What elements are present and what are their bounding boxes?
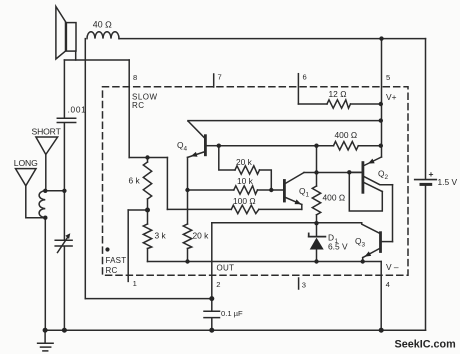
speaker LS1 (56, 7, 76, 61)
svg-text:RC: RC (132, 101, 145, 110)
wire pin 4 column (380, 262, 382, 331)
svg-text:4: 4 (184, 146, 188, 153)
svg-text:OUT: OUT (217, 264, 235, 273)
wire internal ground rail (148, 261, 382, 263)
resistor 400 ohm vertical (312, 146, 320, 224)
svg-text:6: 6 (303, 73, 307, 82)
transistor Q4 (188, 121, 219, 157)
node dot near FAST RC (105, 247, 109, 251)
svg-text:20 k: 20 k (193, 231, 210, 241)
resistor 100 ohm (167, 205, 301, 213)
wire OUT node row (212, 222, 362, 224)
wire Q4 emitter column (187, 157, 189, 224)
wire Q4 collector row (188, 120, 381, 122)
inductor L1 40ohm (87, 32, 119, 39)
capacitor C1 .001 (57, 60, 75, 240)
diode D1 zener 6.5V (309, 223, 326, 261)
svg-text:SeekIC.com: SeekIC.com (395, 339, 456, 351)
svg-text:.001: .001 (68, 105, 87, 115)
svg-text:20 k: 20 k (236, 157, 253, 167)
svg-text:3: 3 (362, 242, 366, 249)
svg-text:2: 2 (385, 174, 389, 181)
resistor 10k (188, 186, 285, 194)
wire bottom rail (45, 329, 425, 331)
wire Q4 base to 400h row (219, 145, 317, 147)
svg-text:SHORT: SHORT (32, 127, 62, 137)
pin 1 (127, 210, 129, 281)
wire V+ column pin 5 (381, 39, 383, 157)
svg-text:7: 7 (218, 73, 222, 82)
svg-text:4: 4 (386, 280, 390, 289)
resistor 20k vertical (183, 224, 191, 262)
wire Q1 collector row (304, 172, 363, 174)
wire speaker bottom (64, 59, 129, 61)
svg-text:400 Ω: 400 Ω (323, 193, 346, 203)
antenna SHORT (36, 137, 58, 191)
pin 7 (213, 74, 215, 87)
svg-text:1: 1 (133, 279, 137, 288)
wire pin 8 lead (128, 60, 130, 158)
svg-text:6 k: 6 k (129, 176, 141, 186)
ground (38, 330, 54, 351)
wire L1 left lead down (84, 39, 86, 299)
svg-text:8: 8 (133, 73, 137, 82)
svg-text:V –: V – (386, 262, 399, 272)
wire 20k h right lead (260, 170, 272, 190)
wire Q2 collector to Q3 collector (392, 185, 394, 242)
svg-text:6.5 V: 6.5 V (328, 242, 348, 252)
wire antenna junction row (45, 190, 64, 192)
antenna LONG (16, 169, 45, 218)
IC dashed box (103, 87, 409, 276)
wire pin8 row to 6k (129, 157, 167, 159)
resistor 20k horizontal (235, 166, 260, 174)
battery B1 1.5V (415, 39, 437, 331)
svg-text:RC: RC (106, 266, 118, 275)
svg-text:100 Ω: 100 Ω (233, 196, 256, 206)
svg-text:LONG: LONG (14, 158, 38, 168)
resistor 12 ohm (298, 100, 380, 108)
capacitor C3 0.1uF (204, 311, 220, 330)
wire OUT column pin 2 (211, 223, 213, 311)
svg-text:1.5 V: 1.5 V (438, 177, 458, 187)
wire Q2 loop back to base (349, 172, 382, 211)
svg-text:12 Ω: 12 Ω (329, 89, 348, 99)
svg-text:3: 3 (302, 281, 306, 290)
resistor 6k (143, 158, 151, 211)
svg-text:1: 1 (306, 192, 310, 199)
transistor Q1 (284, 173, 304, 210)
wire left column down (44, 218, 46, 331)
svg-text:+: + (429, 169, 434, 179)
svg-text:V+: V+ (386, 92, 397, 102)
svg-text:400 Ω: 400 Ω (335, 130, 358, 140)
svg-text:3 k: 3 k (155, 231, 167, 241)
wire down to 100ohm row (166, 158, 168, 210)
transistor Q2 (349, 157, 392, 192)
transistor Q3 (362, 223, 393, 262)
wire 20k h left lead (219, 146, 235, 170)
svg-text:FAST: FAST (106, 256, 127, 265)
wire pin1-out link row (85, 298, 212, 300)
capacitor C2 variable tuning (55, 233, 72, 330)
inductor L2 antenna coil (39, 191, 45, 218)
svg-text:10 k: 10 k (237, 176, 254, 186)
pin 6 (297, 74, 299, 104)
pin 3 (298, 278, 300, 289)
svg-text:5: 5 (386, 73, 390, 82)
svg-text:0.1 µF: 0.1 µF (221, 309, 243, 318)
wire top rail (119, 38, 426, 40)
wire 6k3k junction to pin1 (128, 209, 147, 211)
resistor 400 ohm horizontal (317, 142, 381, 150)
svg-text:2: 2 (216, 280, 220, 289)
resistor 3k (143, 210, 151, 262)
svg-text:40 Ω: 40 Ω (93, 19, 112, 29)
